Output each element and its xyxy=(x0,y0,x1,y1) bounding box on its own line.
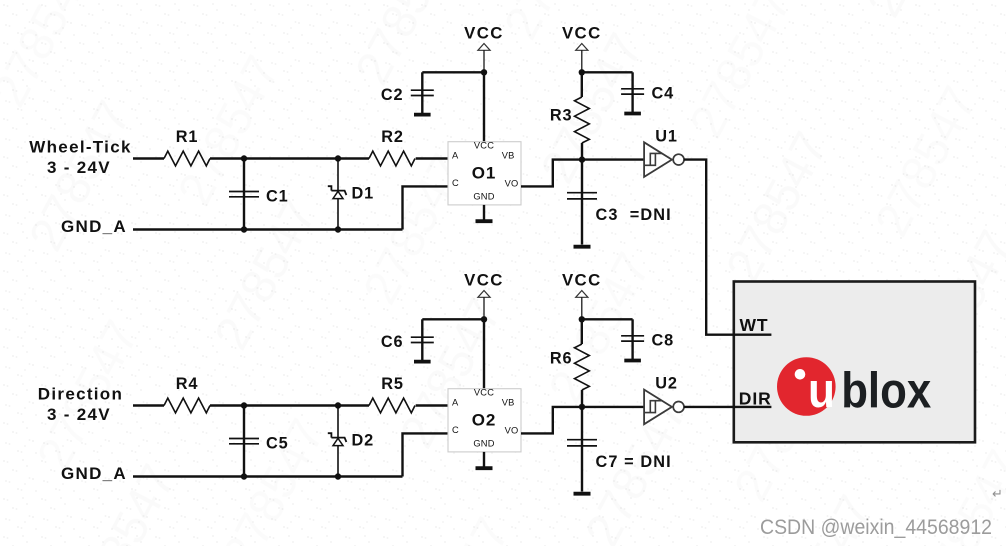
svg-text:R2: R2 xyxy=(381,128,404,146)
svg-text:VB: VB xyxy=(502,398,515,408)
svg-text:VCC: VCC xyxy=(474,387,494,397)
svg-text:C4: C4 xyxy=(652,85,675,103)
svg-text:GND_A: GND_A xyxy=(61,217,127,236)
svg-text:C1: C1 xyxy=(266,188,289,206)
svg-text:R3: R3 xyxy=(550,107,573,125)
svg-text:C5: C5 xyxy=(266,435,289,453)
svg-text:DIR: DIR xyxy=(739,388,772,408)
svg-text:GND: GND xyxy=(473,192,494,202)
svg-text:U2: U2 xyxy=(655,374,678,392)
svg-text:O1: O1 xyxy=(472,164,496,183)
svg-text:VCC: VCC xyxy=(464,271,504,290)
svg-text:3 - 24V: 3 - 24V xyxy=(47,158,111,177)
svg-text:C: C xyxy=(452,425,459,435)
svg-text:C7 = DNI: C7 = DNI xyxy=(596,453,672,471)
svg-text:C8: C8 xyxy=(652,332,675,350)
svg-text:C6: C6 xyxy=(381,333,404,351)
svg-text:D2: D2 xyxy=(352,432,375,450)
svg-text:C2: C2 xyxy=(381,86,404,104)
svg-text:C: C xyxy=(452,178,459,188)
svg-text:VO: VO xyxy=(505,179,519,189)
svg-text:R5: R5 xyxy=(381,375,404,393)
svg-text:VCC: VCC xyxy=(562,271,602,290)
svg-text:GND: GND xyxy=(473,439,494,449)
svg-text:VB: VB xyxy=(502,151,515,161)
svg-text:D1: D1 xyxy=(352,185,375,203)
svg-text:VCC: VCC xyxy=(562,24,602,43)
svg-text:VCC: VCC xyxy=(474,140,494,150)
svg-text:WT: WT xyxy=(740,315,769,335)
svg-text:VCC: VCC xyxy=(464,24,504,43)
svg-text:A: A xyxy=(452,398,459,408)
svg-text:VO: VO xyxy=(505,426,519,436)
svg-text:R4: R4 xyxy=(176,375,199,393)
svg-text:CSDN @weixin_44568912: CSDN @weixin_44568912 xyxy=(760,515,992,539)
svg-text:R1: R1 xyxy=(176,128,199,146)
svg-text:u: u xyxy=(808,364,835,418)
svg-text:Direction: Direction xyxy=(38,385,123,404)
svg-text:A: A xyxy=(452,151,459,161)
svg-text:↵: ↵ xyxy=(992,486,1003,501)
svg-text:3 - 24V: 3 - 24V xyxy=(47,405,111,424)
svg-text:U1: U1 xyxy=(655,127,678,145)
svg-text:GND_A: GND_A xyxy=(61,464,127,483)
svg-text:C3 =DNI: C3 =DNI xyxy=(596,206,672,224)
svg-text:R6: R6 xyxy=(550,349,573,367)
svg-text:Wheel-Tick: Wheel-Tick xyxy=(29,138,131,157)
svg-text:blox: blox xyxy=(841,362,931,418)
svg-text:O2: O2 xyxy=(472,411,496,430)
